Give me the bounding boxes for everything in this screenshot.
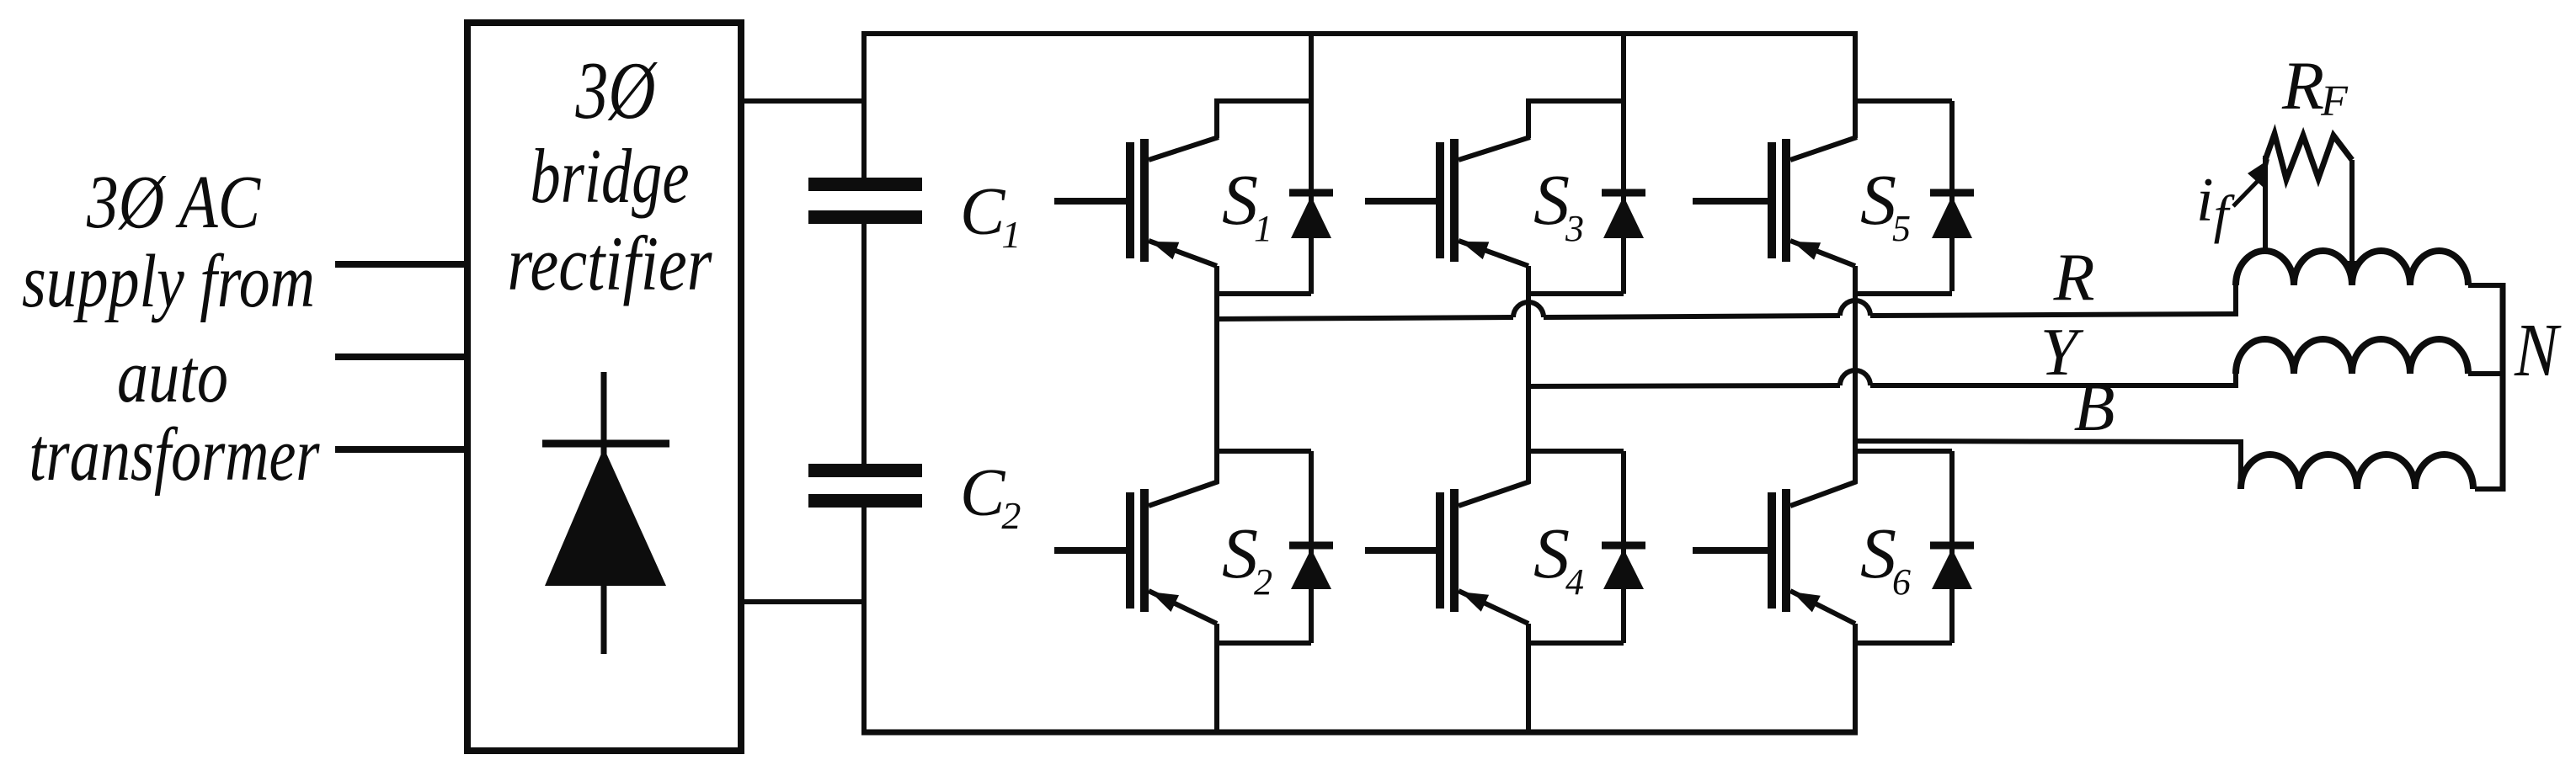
transistor S2 channel bar [1140, 489, 1149, 612]
diode D3 cathode bar [1602, 189, 1645, 197]
wire cell S2 bottom [1214, 640, 1311, 646]
svg-text:R: R [2053, 241, 2095, 315]
svg-text:transformer: transformer [29, 413, 321, 497]
transistor S1 collector lead [1214, 98, 1219, 138]
svg-text:N: N [2514, 309, 2562, 392]
wire Y winding to N [2468, 371, 2503, 376]
diode D4 cathode bar [1602, 542, 1645, 550]
resistor RF zigzag [2265, 134, 2352, 179]
wire cell S5 bottom [1853, 291, 1952, 296]
wire phase Y segment 2 [1870, 383, 2238, 388]
capacitor C1 bottom plate [808, 210, 922, 224]
diode D2 branch [1309, 451, 1314, 643]
wire RF left lead [2263, 156, 2268, 254]
wire dc bus left vertical segment 1 [861, 31, 867, 178]
wire dc bottom bus [861, 730, 1858, 736]
inductor load winding R phase [2236, 251, 2468, 285]
wire RF right lead arrowhead [2343, 261, 2361, 285]
wire leg3 midpoint vertical [1853, 266, 1858, 483]
wire phase B [1855, 441, 2243, 442]
diode D7 anode-cathode lead (rectifier symbol) [601, 372, 607, 654]
transistor S3 collector lead [1526, 98, 1531, 138]
transistor S1 collector diagonal [1149, 137, 1219, 160]
transistor S3 collector diagonal [1459, 137, 1530, 160]
transistor S3 emitter diagonal [1459, 241, 1528, 266]
wire cell S3 bottom [1526, 291, 1624, 296]
transistor S5 gate lead [1693, 198, 1768, 205]
transistor S3 channel bar [1450, 139, 1459, 262]
diode D1 cathode bar [1289, 189, 1333, 197]
svg-text:S4: S4 [1533, 513, 1584, 603]
svg-text:RF: RF [2281, 47, 2349, 125]
transistor S1 gate bar [1126, 142, 1134, 258]
transistor S6 emitter arrow [1792, 592, 1821, 612]
diode D5 triangle [1932, 196, 1972, 238]
svg-text:rectifier: rectifier [508, 221, 713, 306]
transistor S5 emitter arrow [1792, 242, 1821, 260]
wire cell S5 top [1853, 98, 1952, 104]
svg-text:C2: C2 [960, 456, 1021, 537]
svg-text:B: B [2074, 371, 2115, 445]
wire cell S1 bottom [1214, 291, 1311, 296]
transistor S1 emitter arrow [1150, 242, 1179, 259]
wire phase Y hop over leg3 [1840, 370, 1870, 385]
wire rectifier positive output [741, 98, 867, 104]
wire R winding to N [2468, 283, 2505, 288]
wire phase R hop over leg2 [1513, 302, 1544, 317]
transistor S3 emitter arrow [1461, 242, 1490, 259]
wire phase Y segment 1 [1528, 385, 1840, 386]
capacitor C2 top plate [808, 464, 922, 477]
transistor S5 channel bar [1782, 139, 1790, 262]
capacitor C1 top plate [808, 178, 922, 191]
diode D7 triangle [545, 448, 666, 586]
svg-text:bridge: bridge [531, 133, 690, 219]
transistor S3 gate lead [1365, 198, 1436, 205]
wire leg2 diode branch to top bus [1621, 34, 1626, 294]
wire B line drop at load [2238, 439, 2243, 489]
diode D7 cathode bar [542, 440, 669, 448]
diode D2 triangle [1291, 549, 1331, 589]
wire dc bus left vertical segment 2 [861, 224, 867, 464]
transistor S2 collector diagonal [1149, 481, 1219, 506]
transistor S5 collector lead [1853, 98, 1858, 138]
transistor S3 gate bar [1436, 142, 1444, 258]
diode D4 triangle [1603, 549, 1644, 589]
capacitor C2 bottom plate [808, 494, 922, 508]
svg-text:S2: S2 [1222, 513, 1272, 603]
wire phase R segment 1 [1217, 317, 1513, 319]
diode D6 cathode bar [1930, 542, 1974, 550]
wire leg2 midpoint vertical [1526, 266, 1531, 483]
transistor S4 emitter diagonal [1459, 591, 1528, 624]
wire S4 emitter to bottom bus [1526, 624, 1531, 735]
inductor load winding B phase [2241, 454, 2473, 489]
wire supply phase 2 [335, 353, 467, 360]
transistor S5 collector diagonal [1790, 137, 1857, 160]
current if arrowhead [2248, 159, 2269, 187]
transistor S5 emitter diagonal [1790, 241, 1855, 266]
rectifier block U1 (3-phase bridge rectifier box) [467, 23, 741, 751]
wire cell S6 top [1853, 449, 1952, 454]
wire cell S2 top [1214, 449, 1311, 454]
diode D5 cathode bar [1930, 189, 1974, 197]
transistor S2 gate lead [1054, 547, 1126, 554]
wire S2 emitter to bottom bus [1214, 624, 1219, 735]
svg-text:C1: C1 [960, 175, 1021, 256]
wire rectifier negative output [741, 599, 867, 604]
svg-text:supply from: supply from [22, 240, 315, 323]
wire supply phase 3 [335, 446, 467, 453]
transistor S6 channel bar [1782, 489, 1790, 612]
wire leg3 collector branch to top bus [1853, 34, 1858, 101]
wire cell S1 top [1214, 98, 1311, 104]
node N vertical [2500, 283, 2506, 492]
transistor S6 gate bar [1768, 492, 1776, 609]
transistor S2 gate bar [1126, 492, 1134, 609]
transistor S6 gate lead [1693, 547, 1768, 554]
transistor S4 channel bar [1450, 489, 1459, 612]
wire leg1 diode branch to top bus [1309, 34, 1314, 294]
transistor S1 emitter diagonal [1149, 241, 1217, 266]
wire RF right lead [2349, 160, 2355, 271]
diode D6 triangle [1932, 549, 1972, 589]
transistor S2 emitter arrow [1150, 592, 1179, 612]
transistor S5 gate bar [1768, 142, 1776, 258]
transistor S2 emitter diagonal [1149, 591, 1217, 624]
svg-text:if: if [2196, 166, 2236, 244]
svg-text:S3: S3 [1533, 159, 1584, 249]
transistor S4 collector diagonal [1459, 481, 1530, 506]
wire dc bus left vertical segment 3 [861, 508, 867, 735]
wire leg1 midpoint vertical [1214, 266, 1219, 483]
svg-text:3Ø AC: 3Ø AC [86, 161, 261, 244]
transistor S4 gate bar [1436, 492, 1444, 609]
wire cell S6 bottom [1853, 640, 1952, 646]
transistor S6 collector diagonal [1790, 481, 1857, 506]
transistor S1 channel bar [1140, 139, 1149, 262]
diode D1 triangle [1291, 196, 1331, 238]
svg-text:auto: auto [117, 335, 228, 418]
wire phase R segment 2 [1544, 316, 1840, 317]
wire dc top bus [861, 31, 1858, 36]
transistor S1 gate lead [1054, 198, 1126, 205]
diode D6 branch [1949, 451, 1955, 643]
wire R line riser at load [2233, 285, 2238, 316]
svg-text:S6: S6 [1860, 513, 1911, 603]
wire cell S3 top [1526, 98, 1624, 104]
wire Y line riser at load [2233, 374, 2238, 388]
wire S6 emitter to bottom bus [1853, 624, 1858, 735]
diode D2 cathode bar [1289, 542, 1333, 550]
current if arrow tail [2233, 178, 2260, 206]
inductor load winding Y phase [2236, 339, 2468, 374]
transistor S6 emitter diagonal [1790, 591, 1855, 624]
wire supply phase 1 [335, 261, 467, 268]
wire cell S4 bottom [1526, 640, 1624, 646]
wire B winding to N [2475, 486, 2503, 492]
wire phase R segment 3 [1870, 314, 2238, 316]
svg-text:S5: S5 [1860, 159, 1911, 249]
svg-text:S1: S1 [1222, 159, 1272, 249]
svg-text:3Ø: 3Ø [575, 45, 658, 136]
wire cell S4 top [1526, 449, 1624, 454]
diode D3 triangle [1603, 196, 1644, 238]
diode D4 branch [1621, 451, 1626, 643]
wire phase R hop over leg3 [1840, 300, 1870, 316]
transistor S4 gate lead [1365, 547, 1436, 554]
wire leg3 diode branch upper [1949, 101, 1955, 291]
transistor S4 emitter arrow [1461, 592, 1490, 612]
